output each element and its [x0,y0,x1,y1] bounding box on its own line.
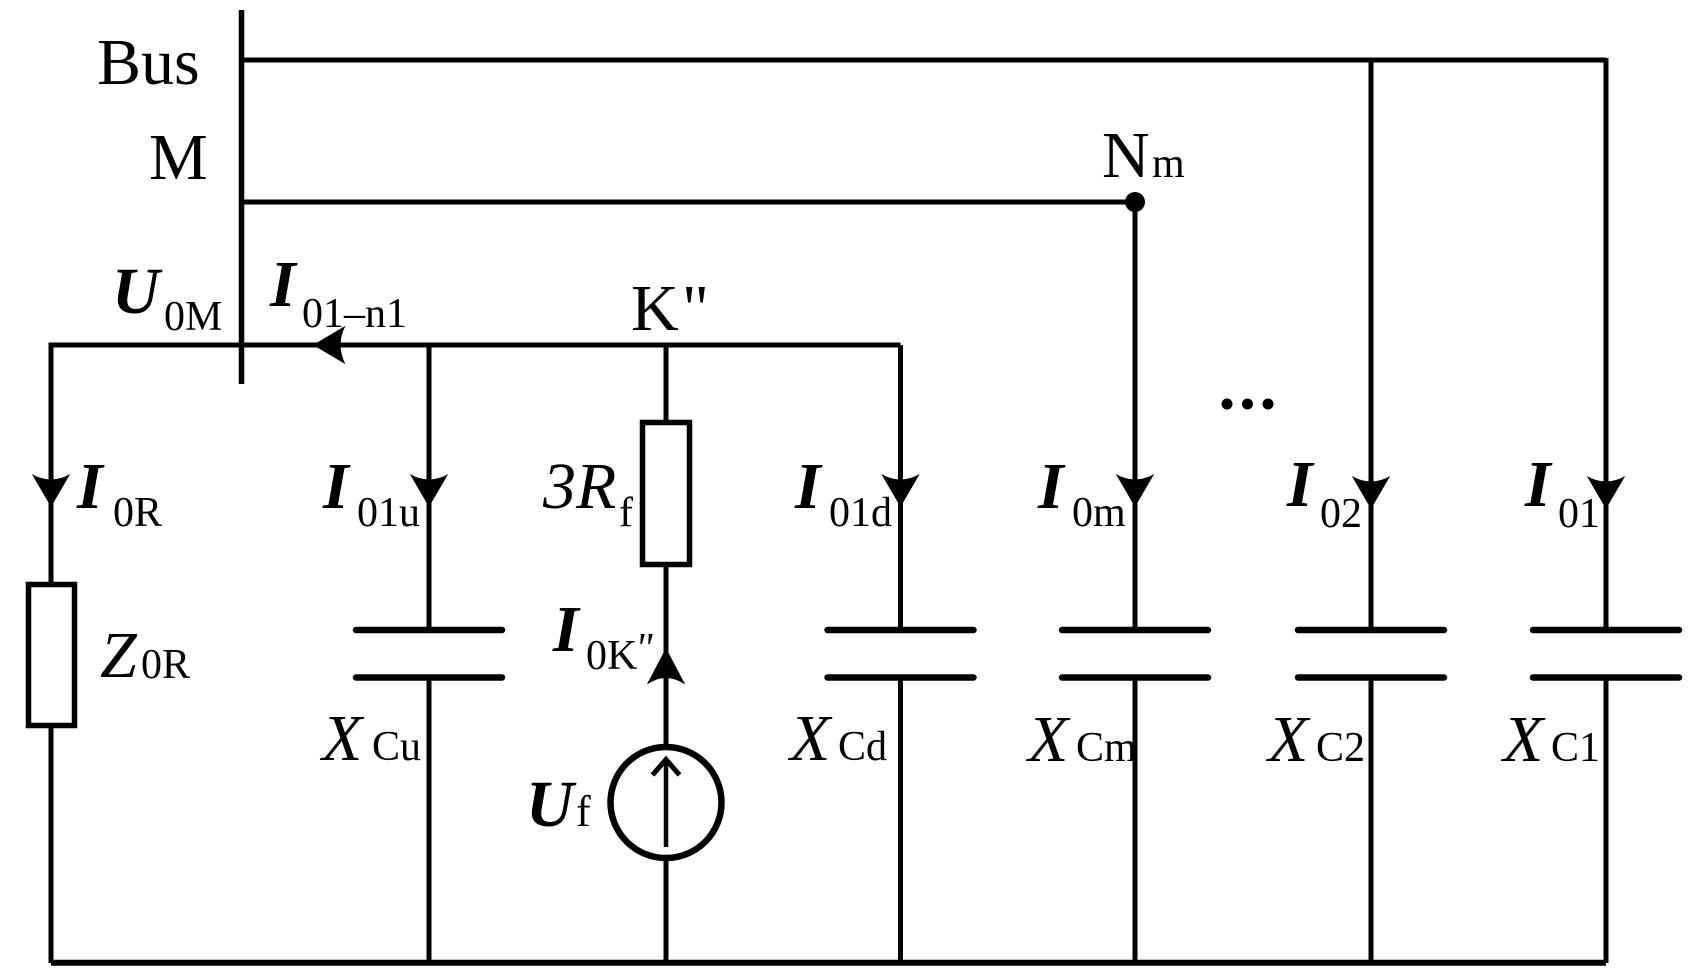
svg-text:I: I [1524,448,1553,521]
wire: X_Cm branch upper lead from node Nm [1133,202,1138,630]
svg-text:I: I [552,593,581,666]
svg-text:N: N [1102,119,1150,192]
wire: bottom return conductor [51,960,1606,966]
svg-text:01d: 01d [829,490,892,536]
wire: X_C1 branch upper lead (right corner drop) [1604,58,1609,630]
wire: X_C2 branch lower lead [1369,678,1374,964]
arrowhead: I_01-n1 (left, on K wire) [313,326,346,364]
svg-text:X: X [1025,703,1071,776]
svg-text:C1: C1 [1551,725,1600,771]
svg-text:X: X [1500,703,1546,776]
svg-text:": " [682,272,709,345]
svg-text:I: I [322,450,351,523]
wire: lead between 3Rf and source Uf [664,562,669,749]
wire: X_Cu branch lower lead [427,678,432,964]
bus bar M (vertical busbar line) [239,10,245,384]
capacitor X_Cd [828,630,974,678]
svg-text:01–n1: 01–n1 [302,291,407,337]
svg-text:K: K [631,272,679,345]
svg-text:X: X [319,702,365,775]
arrowhead: I_01 (down, X_C1 branch) [1587,476,1625,509]
wire: X_Cd branch upper lead (corner from K wire) [898,345,903,630]
svg-text:0R: 0R [141,642,190,688]
svg-text:U: U [526,768,577,841]
arrowhead: I_0R (down, left branch) [32,474,70,507]
svg-text:Bus: Bus [97,26,200,99]
svg-text:3R: 3R [542,450,616,523]
arrowhead: I_0K-double-prime (up, fault branch) [647,648,685,685]
svg-text:I: I [1037,450,1066,523]
wire: left branch down from U_0M corner to Z_0R [49,343,54,583]
svg-text:I: I [269,248,298,321]
voltage source Uf circle [611,747,722,858]
svg-text:01: 01 [1558,491,1600,537]
svg-text:Cm: Cm [1076,725,1137,771]
capacitor X_Cm [1062,630,1208,678]
wire: X_Cd branch lower lead [898,678,903,964]
arrowhead: I_01u (down, X_Cu branch) [410,474,448,507]
arrowhead: I_01d (down, X_Cd branch) [881,474,919,507]
svg-text:X: X [787,702,833,775]
wire: K-double-prime horizontal from left branch to X_Cd branch [51,343,901,348]
svg-text:01u: 01u [357,490,420,536]
capacitor X_Cu [356,630,502,678]
svg-text:Cd: Cd [838,724,887,770]
capacitor X_C1 [1533,630,1679,678]
arrowhead: I_02 (down, X_C2 branch) [1352,476,1390,509]
svg-text:X: X [1265,703,1311,776]
svg-text:0R: 0R [113,490,162,536]
svg-text:U: U [112,255,163,328]
ellipsis dots between X_Cm and X_C2 [1222,399,1233,410]
wire: X_C1 branch lower lead [1604,678,1609,964]
svg-text:I: I [794,450,823,523]
wire: X_Cu branch upper lead [427,345,432,630]
svg-text:Z: Z [100,619,138,692]
svg-text:0K: 0K [586,633,637,679]
svg-text:I: I [1286,448,1315,521]
svg-text:M: M [149,121,208,194]
wire: top feeder from busbar to right corner [239,58,1606,63]
svg-text:f: f [619,490,633,536]
svg-text:m: m [1152,141,1185,187]
arrowhead: I_0m (down, X_Cm branch) [1116,474,1154,507]
capacitor X_C2 [1298,630,1444,678]
node Nm junction dot [1125,192,1145,212]
svg-text:0m: 0m [1072,490,1126,536]
wire: X_C2 branch upper lead from top feeder [1369,60,1374,630]
resistor Z0R [29,585,75,726]
voltage source Uf inner arrow [653,760,680,848]
svg-text:": " [635,626,653,672]
svg-text:C2: C2 [1316,725,1365,771]
svg-text:Cu: Cu [372,724,421,770]
resistor 3Rf [643,423,690,565]
svg-text:f: f [576,787,591,836]
wire: Uf bottom lead to return conductor [664,858,669,963]
wire: Z_0R bottom lead to return conductor [49,725,54,963]
svg-text:0M: 0M [164,294,222,340]
wire: X_Cm branch lower lead [1133,678,1138,964]
wire: fault branch lead from K wire to 3Rf [664,345,669,422]
svg-text:02: 02 [1320,491,1362,537]
wire: M feeder from busbar to node Nm [239,200,1135,205]
svg-text:I: I [76,450,105,523]
